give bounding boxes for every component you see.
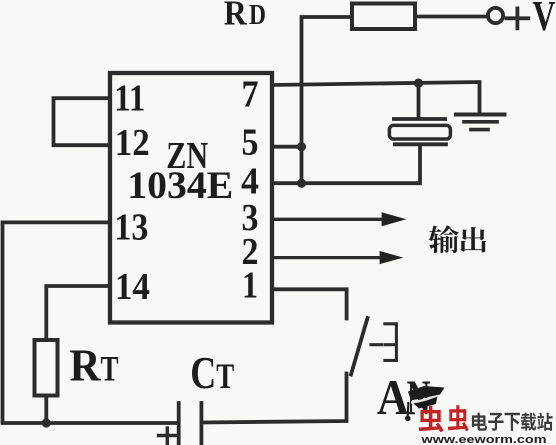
junction node pin5/RD branch [297, 142, 306, 151]
output label chinese shu-chu [429, 225, 487, 253]
svg-text:14: 14 [115, 266, 150, 308]
crystal bottom plate [395, 142, 446, 146]
svg-text:R: R [224, 0, 248, 32]
wire RD to +V terminal [415, 15, 488, 19]
resistor RD body [352, 4, 415, 30]
svg-text:13: 13 [114, 207, 148, 249]
capacitor CT left plate [177, 403, 181, 445]
watermark cap tassel [407, 402, 410, 417]
junction node RT/bottom rail [42, 418, 51, 427]
wire pin14 to RT [46, 286, 110, 340]
svg-text:1: 1 [242, 265, 258, 307]
watermark cap board [408, 386, 445, 401]
output arrowhead pin2 [380, 251, 404, 264]
wire RD branch down to pins 5/4 [302, 17, 353, 183]
wire pin13 to bottom rail [3, 222, 179, 423]
wire CT to switch AN [201, 374, 346, 423]
wire RT bottom to rail [44, 396, 48, 424]
op-amp/timer IC U1 ZN1034E body [110, 73, 272, 323]
switch AN blade [351, 318, 368, 375]
ground symbol [456, 115, 505, 130]
svg-text:V: V [533, 0, 556, 40]
wire pin11-pin12 strap [54, 98, 111, 145]
CT polarity plus sign [159, 428, 177, 444]
crystal body [389, 125, 450, 139]
svg-text:C: C [190, 348, 216, 398]
wire pin1 to switch top contact [272, 289, 347, 318]
svg-text:1034E: 1034E [127, 164, 233, 207]
+V terminal circle [488, 8, 503, 23]
wire pin5 [272, 145, 302, 149]
svg-text:A: A [377, 369, 409, 425]
crystal/timing capacitor top lead [417, 83, 421, 118]
svg-text:T: T [101, 348, 119, 388]
svg-text:12: 12 [115, 122, 150, 164]
svg-text:D: D [249, 0, 266, 31]
junction node pin4/RD branch [297, 179, 306, 188]
wire pin4 to crystal bottom [272, 147, 420, 184]
watermark cap highlight stripe [411, 393, 442, 403]
resistor RT body [35, 340, 58, 396]
svg-text:7: 7 [242, 74, 259, 116]
watermark site name dianzi xiazaizhan [472, 413, 553, 431]
wire pin3 output arrow shaft [272, 218, 384, 221]
wire pin2 output arrow shaft [272, 256, 381, 259]
output arrowhead pin3 [382, 212, 407, 226]
watermark chongchong red characters [419, 405, 469, 432]
+V plus sign [507, 8, 529, 28]
crystal top plate [394, 117, 445, 121]
wire pin7 to ground [272, 82, 480, 114]
capacitor CT right plate [199, 403, 203, 444]
svg-text:5: 5 [242, 121, 259, 163]
svg-text:11: 11 [114, 77, 145, 119]
junction node pin7/crystal [414, 79, 423, 88]
svg-text:R: R [70, 339, 102, 390]
svg-text:T: T [216, 356, 234, 396]
svg-text:www.eeworm.com: www.eeworm.com [420, 434, 547, 445]
watermark graduation cap base [413, 396, 438, 409]
switch AN pushbutton dashed actuator [371, 324, 396, 361]
